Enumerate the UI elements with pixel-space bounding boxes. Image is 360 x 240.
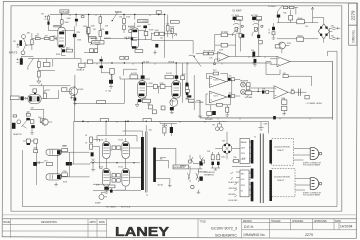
svg-text:100U: 100U [221,156,226,158]
output transformer T1 primary [141,137,144,190]
label box above V2 [138,20,149,23]
svg-text:2279: 2279 [305,233,313,237]
feedback resistor R23 [221,33,227,37]
capacitor C13 [186,92,189,95]
svg-text:SLAVE: SLAVE [95,201,101,204]
supply connector 1 [310,147,322,159]
svg-text:2279: 2279 [351,10,356,21]
secondary wires [156,148,176,182]
svg-text:SPEAKERS: SPEAKERS [204,174,214,177]
heater wires [232,161,251,195]
svg-text:10n: 10n [229,76,232,78]
svg-text:DESCRIPTION: DESCRIPTION [41,222,57,224]
svg-text:LP1: LP1 [212,124,215,126]
mid bus wire [104,37,131,39]
pot P1 treble [86,27,96,46]
svg-text:DR 100K 4K7: DR 100K 4K7 [203,51,214,53]
T2 right winding [269,140,272,164]
resistor R3 [35,37,40,39]
wires slave [93,184,111,189]
label box below V2 [135,50,143,53]
box w text [188,99,194,102]
svg-text:74B077: 74B077 [277,150,285,152]
svg-text:ISSUE: ISSUE [3,222,10,224]
speaker jack JS2 contacts [196,169,203,182]
cathode resistor R6 [62,49,65,52]
wire out [41,90,59,98]
svg-text:100/120V MODEL: 100/120V MODEL [274,146,291,148]
resistor R41 [37,62,40,68]
input jack J1 [22,35,26,39]
circle below V4 [170,99,178,107]
volume pot box [92,41,104,44]
HT fuse cluster [160,124,177,137]
cap below Q1 [74,98,77,101]
capacitor C22 [109,80,113,84]
bass pot boxes [90,49,94,53]
ground arrow [37,77,41,84]
rail PSU bottom [277,38,319,40]
box LML [305,95,309,99]
cathode label box [66,49,72,52]
transistor Q1 [67,87,78,96]
wire [88,15,90,41]
svg-text:1K5: 1K5 [143,98,146,100]
resistor R7 [87,27,90,31]
cathode wire [62,48,66,56]
label box rail 1 [100,119,108,122]
B+ rail power amp [74,120,227,122]
svg-text:VOLUME: VOLUME [245,97,253,99]
svg-text:EL84: EL84 [119,139,123,141]
feedback loop U4 [206,94,230,105]
tube DA boxes right [62,148,68,151]
svg-text:D.E.H.: D.E.H. [244,225,254,229]
svg-text:RV1: RV1 [213,70,216,72]
svg-text:74B073: 74B073 [277,180,285,182]
wire ground stub [214,59,216,63]
slave jack [99,192,107,199]
svg-text:BL 40X: BL 40X [143,61,150,63]
coupling cap C3 [73,34,76,37]
ground [73,101,77,105]
electro cap C30 [12,123,16,129]
svg-text:6800U: 6800U [298,18,304,20]
bias caps [211,162,214,165]
svg-text:BROWN: BROWN [229,194,237,196]
fx jack J3 [17,120,21,124]
wire top fx [28,109,44,118]
left vertical feed [36,143,38,185]
top row wires [283,8,298,15]
wire anode to right [62,26,75,58]
feedback resistor R31 [213,72,219,75]
resistor R8 [87,27,90,33]
capacitor C5 [105,31,108,34]
svg-text:CF 100K: CF 100K [221,32,229,34]
dark cap [170,107,174,110]
svg-text:T1: T1 [146,195,148,197]
op-amp U5 [277,56,290,66]
switch S3 [252,28,258,36]
decoupling cap C4 [75,19,78,22]
fx part [34,139,38,143]
vertical bus left [186,62,188,97]
wire [290,20,292,23]
lower fx wire [23,140,38,142]
extra border line [3,214,357,216]
resistor R20 [235,27,238,31]
small box [129,30,133,33]
svg-text:GC30V 9072_3: GC30V 9072_3 [211,227,237,231]
wire [39,59,53,72]
drop wire [101,57,111,80]
bridge rectifier BR1 [318,24,329,39]
triode V3 [138,81,147,99]
resistor R34 [226,107,229,112]
mid crossover wire [90,150,140,177]
T2 core [260,134,263,204]
fx dark [27,143,30,145]
label box above V1 [54,25,61,27]
T1 secondary [153,148,156,183]
input jack J2 [21,51,25,55]
dark tick [34,93,36,95]
input resistors R24 R25 [203,52,208,55]
resistor R43 [43,93,46,98]
svg-text:BC184: BC184 [78,89,84,91]
junction dots power [92,162,93,163]
svg-text:APPROVED: APPROVED [314,220,327,223]
svg-text:DRG No.: DRG No. [351,29,355,42]
pot wiper arcs [233,23,259,25]
svg-text:CL 15: CL 15 [269,28,271,34]
ground arrow V3 [135,102,139,107]
resistor R1 [48,16,50,20]
marks [278,58,280,64]
label boxes on rail [120,57,124,60]
resistor R13 [167,26,170,32]
box near Q2 [275,45,280,48]
reverb pot [205,111,216,121]
polarity mark [45,16,47,20]
transistor Q3 [41,119,49,125]
RCA jack JR1 [241,82,251,87]
left small parts [91,152,94,156]
svg-text:TREB: TREB [257,19,263,21]
wire horizontal mid [74,79,124,121]
output network C14 [228,78,231,81]
polarity [17,59,19,63]
svg-text:4n7: 4n7 [291,89,294,91]
svg-text:40 RMS: 40 RMS [91,38,98,40]
cathode blob [131,37,133,40]
svg-text:M.V. P.C.B.: M.V. P.C.B. [121,207,131,209]
wires [131,28,152,40]
capacitor C11 box [259,40,263,44]
resistor R9 [99,31,102,37]
wire [250,88,274,92]
wire to jack [226,79,240,81]
svg-text:6800U: 6800U [298,35,304,37]
resistor R11 [123,25,126,30]
feedback resistor R23b [221,43,227,47]
bridge wires [313,18,333,43]
svg-text:REMOTE: REMOTE [13,134,22,136]
blob [187,95,191,97]
T2 left winding [251,140,254,164]
slave cap [110,190,113,193]
resistor R12 pair [144,31,148,35]
cap dark [277,15,280,18]
RCA jack JR2 [241,89,251,94]
DRG No label box (rotated) [349,25,357,45]
cathode blob [104,187,109,190]
resistor [149,105,153,109]
sub box corner [124,69,137,75]
cap below pot1 [241,34,244,37]
svg-text:BLUE RED: BLUE RED [229,200,239,202]
svg-text:EL84: EL84 [99,166,103,168]
svg-text:10n: 10n [160,38,163,40]
right column resistors [181,76,185,80]
pot circles [241,25,243,27]
EL84 V5 [103,142,111,159]
switch S2 [233,28,239,36]
ground [272,23,276,39]
label boxes V3 [130,75,138,79]
svg-text:TIP41: TIP41 [287,43,292,45]
ground R34 [225,105,229,117]
tube link wires [57,152,69,177]
svg-text:14/10/94: 14/10/94 [340,225,353,229]
wire [111,74,113,80]
pot P2 bass [233,16,243,26]
box choke 1 [297,20,305,24]
wires [147,87,172,94]
wire down [279,10,291,23]
resistors top row [283,6,287,8]
grid lead right [196,99,200,101]
switch S contacts [23,38,27,50]
cap stack left 2 [272,32,275,35]
svg-text:10n: 10n [229,92,232,94]
svg-text:B250C: B250C [115,12,122,14]
chassis ground [258,122,263,131]
tick marks on wires [70,15,310,123]
bias resistors [211,155,214,160]
T1 core [145,132,147,193]
wire to right [152,33,173,35]
junction dots rail [61,14,177,122]
ground [253,63,256,66]
svg-text:BASS: BASS [237,18,243,21]
lamp wires [217,121,221,127]
schematic inner frame [23,51,338,206]
V4 anode wire [175,63,177,81]
ground left [91,167,95,171]
anode resistor R5 [61,20,64,24]
svg-text:HT 1A: HT 1A [162,124,168,127]
capacitor C2 input [19,40,22,46]
wire grid [27,33,51,50]
triode V2b horizontal [28,94,41,103]
mid resistors [153,85,157,89]
base resistor box [62,88,67,92]
resistor [289,16,293,21]
cluster arrows [91,159,94,168]
resistor R50 [110,69,114,75]
small box below wire [33,89,37,93]
svg-text:REVERB: REVERB [205,119,213,121]
series caps row [33,161,44,164]
svg-text:ECC83: ECC83 [166,73,172,75]
svg-text:220/240V MODEL: 220/240V MODEL [274,177,291,179]
bass pot box2 [94,49,97,53]
V3 anode wire [141,63,143,81]
svg-text:▹ POWER LEVEL: ▹ POWER LEVEL [306,102,323,105]
top wire [21,56,52,58]
electro cap C20 [20,58,23,64]
resistor pair [26,113,30,116]
bias bridge BR2 [222,144,232,154]
box [266,90,269,93]
DRG number box (rotated, top right) [349,3,357,25]
feedback resistor R40 [283,75,288,78]
dark cap [26,118,30,120]
component cluster right [129,27,135,33]
op-amp U6 mixer [274,86,288,99]
standby switch S11 [200,155,205,169]
T2 box2 stubs [249,174,251,191]
EL84 V7 [103,169,111,187]
switch diagonal S4 [189,55,201,66]
T1 top wire [122,125,146,137]
power switch S10 [189,155,194,169]
junction [258,91,259,92]
cathode parts V3 [138,99,142,102]
title box [198,219,242,238]
cap stack left [272,27,275,30]
small rects row3 [112,179,116,182]
fx box [26,139,30,143]
label box V2b [10,96,19,100]
grid feed wires [69,140,102,177]
switch diagonal [28,58,34,70]
bridge wires [215,132,240,160]
anode wire V2 [134,15,136,28]
screen resistors row2 [112,174,116,178]
ground mid [54,183,58,186]
ground [185,95,189,100]
triode V1 [58,27,66,48]
stacked resistors below U6 [282,100,287,104]
EL84 V8 [122,169,129,187]
svg-text:LANEY: LANEY [115,224,169,239]
wire drop [75,15,77,27]
input wire [196,54,218,59]
resistor [34,150,38,153]
junction mark [158,14,159,15]
supply connector 2 [310,177,322,189]
cathode bus [93,189,141,191]
coupling cap bars [299,89,301,96]
grid lead [55,37,56,40]
electro cap C12 [252,52,255,57]
rail B250C [50,14,165,16]
svg-text:DATE: DATE [99,221,105,224]
feedback U5 [266,62,280,75]
svg-text:FOR 220/240V MAINS: FOR 220/240V MAINS [303,194,321,197]
resistor left of it [161,106,165,110]
smoothing caps 1 [331,25,341,29]
svg-text:1n5: 1n5 [148,24,151,26]
svg-text:POWER: POWER [268,6,276,8]
anode wire [61,15,63,28]
ground T1 [168,183,172,187]
junction marks [82,121,84,123]
wire [99,15,101,41]
label box on wire [97,101,106,104]
middle pot box [77,63,85,71]
svg-text:INPUTS: INPUTS [9,52,18,54]
secondary wire labels [229,181,240,202]
rail PSU top [277,22,319,24]
driver tube DB [46,174,61,180]
triode V2 [132,28,139,49]
svg-text:DRAWN: DRAWN [243,220,252,223]
cathode box [143,99,151,103]
impedance box [173,165,189,169]
anode blob V4 [175,75,179,78]
svg-text:TL072: TL072 [213,95,218,97]
frame right verticals [332,118,334,120]
resistor q [40,119,44,123]
cap dark [185,83,188,87]
resistor R10 [123,19,126,24]
svg-text:MAINS: MAINS [180,164,187,167]
opamp marks [210,93,212,100]
feedback loop wire [215,34,236,56]
title block strip top line [3,218,357,220]
wires down to opamp [240,37,260,56]
small box on rail [81,16,84,18]
jack ground [197,190,201,194]
cap below R12 [155,44,158,48]
grid lead [24,97,28,100]
svg-text:EL84: EL84 [119,166,123,168]
T2 feed wire [227,122,269,134]
sheet margin border [11,6,342,211]
revision table [3,219,107,238]
opamp marks [210,78,212,84]
svg-text:TL072: TL072 [213,79,218,81]
svg-text:CHECKED: CHECKED [292,221,304,223]
bias wires [211,152,220,170]
resistor R30 [186,85,189,90]
feedback box wire U3 [206,74,227,82]
rail wire [84,62,272,64]
grid resistors left [90,137,93,142]
EL84 V6 [122,142,129,159]
smoothing caps 2 [331,36,341,40]
resistor box2 [160,32,165,35]
jack tip contacts [17,44,20,48]
pot boxes left [87,60,93,64]
wire to power amp [69,121,90,164]
wire [123,15,125,34]
rail dot [124,62,125,63]
